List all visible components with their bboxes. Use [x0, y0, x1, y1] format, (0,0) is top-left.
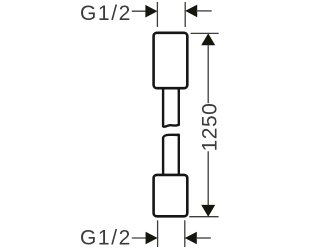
dimension line 1250 lower segment	[207, 151, 209, 206]
svg-text:1250: 1250	[198, 103, 221, 152]
dimension line 1250 upper segment	[207, 44, 209, 103]
arrowhead top-left	[145, 5, 157, 18]
dimension line top-right tail	[196, 10, 212, 12]
hose stem upper with wavy break end	[163, 89, 179, 127]
dimension line top-left tail	[132, 10, 148, 12]
svg-text:G1/2: G1/2	[80, 2, 132, 25]
svg-text:G1/2: G1/2	[80, 227, 132, 250]
arrowhead bottom-left	[146, 232, 158, 245]
extension line right-bottom (for 1250)	[189, 216, 218, 218]
arrowhead 1250 down	[201, 205, 215, 217]
extension line top-left	[156, 2, 158, 27]
arrowhead top-right	[185, 5, 197, 18]
extension line right-top (for 1250)	[191, 32, 219, 34]
extension line bottom-left	[157, 220, 159, 247]
extension line top-right	[184, 2, 186, 27]
arrowhead bottom-right	[185, 232, 197, 245]
dimension line bottom-right tail	[196, 237, 211, 239]
extension line bottom-right	[184, 220, 186, 247]
hose stem lower with wavy break end	[163, 135, 179, 175]
arrowhead 1250 up	[201, 33, 215, 45]
dimension line bottom-left tail	[132, 237, 148, 239]
hose nut bottom (connector body)	[154, 175, 188, 216]
hose nut top (connector body)	[154, 33, 188, 88]
